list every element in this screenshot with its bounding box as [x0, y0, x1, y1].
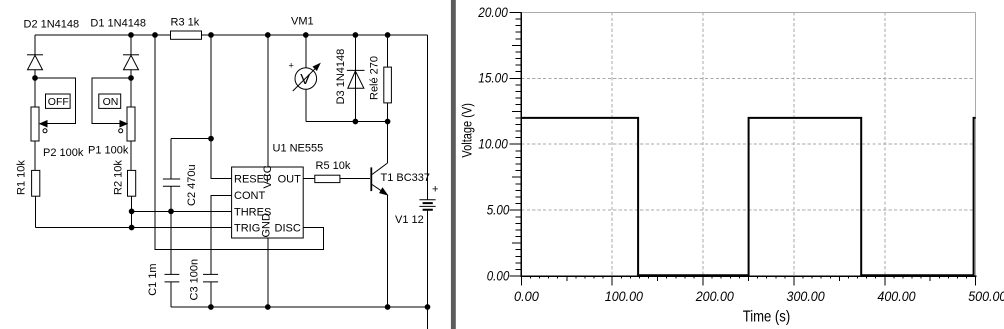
- svg-text:C3 100n: C3 100n: [189, 259, 201, 301]
- svg-text:CONT: CONT: [234, 190, 265, 202]
- wire R5 to base: [340, 178, 370, 180]
- svg-text:0.00: 0.00: [487, 268, 510, 284]
- node R1-R2-TRIG: [129, 225, 135, 231]
- svg-text:C2 470u: C2 470u: [186, 164, 198, 206]
- diode D1: [90, 18, 146, 79]
- node R2-THRES: [129, 209, 135, 215]
- potentiometer P2 100k: [31, 78, 84, 170]
- x minor ticks: [531, 277, 967, 279]
- svg-text:15.00: 15.00: [478, 70, 508, 86]
- node D3 rail: [353, 32, 359, 38]
- svg-text:0.00: 0.00: [514, 288, 539, 304]
- svg-text:200.00: 200.00: [695, 288, 734, 304]
- wire C2 top link: [171, 138, 211, 140]
- node rail-DISC branch: [152, 32, 158, 38]
- svg-text:D3 1N4148: D3 1N4148: [335, 49, 347, 105]
- potentiometer P1 100k: [88, 78, 135, 170]
- svg-text:C1 1m: C1 1m: [147, 263, 159, 295]
- CHART: [458, 4, 1004, 326]
- y major ticks: [509, 12, 521, 276]
- x axis: [521, 275, 977, 277]
- svg-text:TRIG: TRIG: [234, 223, 260, 235]
- node VM1 rail: [303, 32, 309, 38]
- svg-text:5.00: 5.00: [487, 202, 510, 218]
- node rail-R3 right: [208, 32, 214, 38]
- svg-text:+: +: [289, 60, 294, 70]
- capacitor C3 100n: [189, 259, 219, 307]
- pushbutton ON label: [99, 94, 121, 108]
- wire GND pin to bottom rail: [267, 238, 269, 307]
- wire VM1/D3/relay bottom link: [306, 121, 388, 123]
- resistor R5 10k: [315, 160, 351, 182]
- node battery gnd: [425, 304, 431, 310]
- svg-text:R1 10k: R1 10k: [15, 160, 27, 195]
- svg-text:Relé 270: Relé 270: [369, 56, 381, 100]
- diode D2: [24, 19, 80, 79]
- svg-text:+: +: [432, 184, 438, 196]
- node GND pin gnd: [265, 304, 271, 310]
- svg-text:V: V: [300, 71, 310, 88]
- svg-text:DISC: DISC: [275, 223, 301, 235]
- x medium ticks: [567, 277, 930, 281]
- svg-text:R3 1k: R3 1k: [171, 17, 200, 29]
- svg-text:300.00: 300.00: [787, 288, 825, 304]
- y medium ticks: [512, 45, 522, 243]
- node VCC rail: [265, 32, 271, 38]
- wire R2 bottom: [131, 196, 133, 227]
- separator bar: [451, 0, 456, 329]
- wire TRIG: [36, 227, 232, 229]
- wire rail down to C2/RESET node: [210, 35, 212, 139]
- y axis labels: [477, 4, 509, 284]
- svg-text:R5 10k: R5 10k: [316, 160, 351, 172]
- wire CONT branch: [211, 195, 232, 274]
- capacitor C1 1m: [147, 211, 179, 307]
- svg-text:D2 1N4148: D2 1N4148: [24, 19, 80, 31]
- wire THRES: [132, 210, 232, 212]
- node D3 bottom: [353, 119, 359, 125]
- grid vertical dashed: [612, 12, 885, 276]
- node D1 top rail: [128, 32, 134, 38]
- svg-text:100.00: 100.00: [605, 288, 643, 304]
- y axis: [520, 12, 522, 276]
- node relay collector: [385, 119, 391, 125]
- waveform square wave: [521, 118, 975, 275]
- capacitor C2 470u: [163, 139, 198, 212]
- wire RESET branch: [211, 139, 232, 179]
- node relay rail: [385, 32, 391, 38]
- x axis labels: [514, 288, 1004, 304]
- svg-text:P2 100k: P2 100k: [43, 147, 84, 159]
- svg-text:Voltage (V): Voltage (V): [458, 103, 474, 158]
- wire bottom rail: [171, 306, 428, 308]
- svg-text:500.00: 500.00: [968, 288, 1004, 304]
- svg-text:20.00: 20.00: [477, 4, 508, 20]
- svg-text:ON: ON: [103, 96, 119, 108]
- op-amp U1 NE555 box: [232, 143, 324, 239]
- node C2top-RESET: [208, 136, 214, 142]
- diode D3 1N4148: [335, 35, 365, 122]
- x major ticks: [521, 277, 975, 286]
- node D1-P1: [128, 75, 134, 81]
- wire VCC pin to rail: [267, 35, 269, 167]
- wire right rail (battery column): [427, 35, 429, 329]
- relay Relé 270: [369, 35, 392, 122]
- y minor ticks: [516, 19, 522, 270]
- svg-text:U1 NE555: U1 NE555: [273, 143, 324, 155]
- svg-text:OUT: OUT: [278, 174, 302, 186]
- node C3 gnd: [208, 304, 214, 310]
- svg-text:OFF: OFF: [48, 96, 69, 108]
- transistor T1 BC337: [370, 122, 430, 308]
- svg-text:10.00: 10.00: [478, 136, 508, 152]
- wire OUT to R5: [303, 178, 315, 180]
- pushbutton OFF label: [46, 94, 71, 108]
- node emitter gnd: [385, 304, 391, 310]
- svg-text:GND: GND: [261, 213, 273, 238]
- resistor R2 10k: [112, 160, 135, 197]
- svg-text:VCC: VCC: [262, 165, 274, 188]
- svg-text:400.00: 400.00: [877, 288, 915, 304]
- wire R1 bottom to TRIG rail: [35, 196, 37, 227]
- svg-text:V1 12: V1 12: [395, 214, 424, 226]
- voltmeter VM1: [289, 16, 320, 122]
- resistor R3 1k: [171, 17, 202, 40]
- svg-text:R2 10k: R2 10k: [112, 160, 124, 195]
- svg-text:VM1: VM1: [291, 16, 314, 28]
- svg-text:T1 BC337: T1 BC337: [381, 172, 431, 184]
- resistor R1 10k: [15, 160, 40, 197]
- grid horizontal dashed: [521, 78, 975, 210]
- wire DISC return path: [155, 35, 324, 250]
- node D2-P2: [32, 75, 38, 81]
- svg-text:Time (s): Time (s): [743, 308, 791, 325]
- wire top rail: [35, 34, 428, 36]
- svg-text:P1 100k: P1 100k: [88, 145, 129, 157]
- battery V1 12: [395, 184, 438, 227]
- svg-text:D1 1N4148: D1 1N4148: [90, 18, 146, 30]
- node C2-THRES: [168, 209, 174, 215]
- frame top and right: [521, 12, 975, 276]
